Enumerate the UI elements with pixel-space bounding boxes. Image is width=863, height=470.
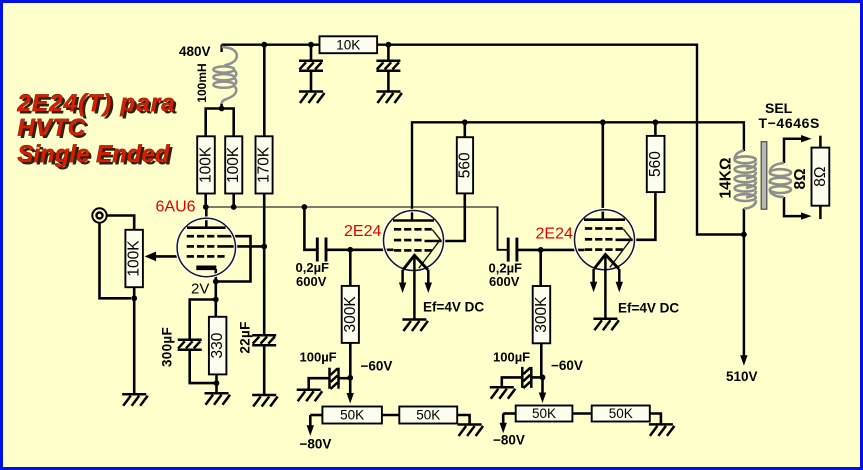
wire: 6AU6 g3 tie to cathode bbox=[216, 236, 251, 281]
title line 3 bbox=[18, 141, 174, 171]
svg-text:−80V: −80V bbox=[300, 437, 332, 452]
svg-text:T−4646S: T−4646S bbox=[759, 115, 820, 131]
transformer T1 primary winding 14K bbox=[735, 151, 756, 209]
transformer T1 core bbox=[761, 142, 767, 210]
wire: 170K bottom to 22uF and ground bbox=[263, 194, 266, 396]
resistor R12 50K bbox=[322, 407, 382, 424]
wire: 6AU6 g2 to 170K line bbox=[217, 245, 264, 248]
svg-text:300K: 300K bbox=[533, 296, 550, 333]
resistor R9 560 screen 2 bbox=[647, 136, 665, 192]
wire: input jack to grid resistor bbox=[107, 216, 135, 230]
svg-text:100µF: 100µF bbox=[300, 350, 337, 365]
wire: between 50K#3 and 50K#4 bbox=[572, 412, 591, 415]
transformer T1 secondary winding 8ohm bbox=[770, 163, 791, 197]
wire: 6AU6 cathode down bbox=[215, 269, 218, 317]
input jack J1 bbox=[92, 208, 106, 222]
ground: cathode network bbox=[205, 393, 231, 405]
resistor R14 50K bbox=[516, 406, 573, 422]
wire+arrow: bias2 tap arrow bbox=[541, 377, 544, 393]
capacitor C7 coupling 0.2uF first bbox=[317, 238, 326, 262]
svg-text:170K: 170K bbox=[256, 146, 273, 183]
capacitor C1 filter bbox=[299, 61, 323, 71]
svg-text:300K: 300K bbox=[342, 296, 359, 333]
svg-text:50K: 50K bbox=[532, 406, 556, 421]
wire: filter cap C1 branch bbox=[310, 45, 313, 92]
svg-text:100K: 100K bbox=[198, 146, 215, 183]
wire: R4 bottom to ground bbox=[133, 287, 136, 394]
ground: bias2 100uF bbox=[490, 387, 516, 399]
tube V3 2E24 second bbox=[575, 210, 635, 319]
svg-text:100K: 100K bbox=[126, 240, 143, 277]
wire: bias1 100uF leads bbox=[309, 378, 330, 389]
svg-text:Ef=4V DC: Ef=4V DC bbox=[423, 300, 484, 315]
wire: V2 plate rail riser and plate rail bbox=[412, 122, 744, 220]
wire: R1 bottom to plate node bbox=[204, 194, 207, 208]
wire: thin signal rail from 6AU6 plate to coupling caps bbox=[206, 206, 498, 208]
svg-text:22µF: 22µF bbox=[238, 321, 253, 353]
svg-text:2E24(T) para: 2E24(T) para bbox=[17, 90, 176, 117]
svg-text:2E24: 2E24 bbox=[344, 223, 381, 240]
ground: V2 filament bbox=[402, 320, 428, 332]
svg-text:Single Ended: Single Ended bbox=[18, 141, 171, 168]
wire+arrow: bias1 tap arrow bbox=[349, 378, 352, 394]
wire: secondary top lead with arrow bbox=[784, 139, 802, 163]
capacitor C2 filter bbox=[376, 61, 400, 71]
svg-text:14KΩ: 14KΩ bbox=[718, 158, 735, 199]
resistor R2 100K bbox=[225, 136, 242, 193]
resistor R8 560 screen 1 bbox=[456, 137, 473, 193]
resistor R4 100K grid bbox=[125, 230, 142, 287]
svg-text:50K: 50K bbox=[609, 406, 633, 421]
svg-text:50K: 50K bbox=[416, 408, 440, 423]
wire+arrow: 6AU6 grid arrow bbox=[155, 255, 180, 258]
svg-text:6AU6: 6AU6 bbox=[156, 199, 196, 216]
wire: 8ohm load leads bbox=[819, 136, 822, 219]
svg-text:480V: 480V bbox=[179, 44, 211, 59]
tube V2 2E24 first bbox=[384, 211, 444, 320]
ground: bias2 50K end bbox=[649, 424, 675, 436]
svg-text:600V: 600V bbox=[489, 274, 520, 289]
ground: filter cap C2 bbox=[376, 92, 402, 104]
svg-text:100K: 100K bbox=[225, 146, 242, 183]
wire: 6AU6 plate lead bbox=[205, 207, 208, 228]
svg-text:8Ω: 8Ω bbox=[792, 168, 809, 189]
tube V1 6AU6 bbox=[177, 218, 235, 276]
svg-text:100mH: 100mH bbox=[195, 63, 209, 102]
wire: filter cap C2 branch bbox=[387, 45, 390, 92]
ground: bias1 50K end bbox=[458, 425, 484, 437]
svg-text:10K: 10K bbox=[336, 37, 360, 52]
wire: choke top lead bbox=[220, 45, 222, 52]
wire: secondary bottom lead with arrow bbox=[784, 197, 802, 216]
ground: 22uF bbox=[252, 395, 278, 407]
resistor R13 50K bbox=[399, 407, 457, 424]
ground: input/grid resistor bbox=[122, 394, 148, 406]
wire+arrow: -80V arrow 1 bbox=[309, 415, 312, 427]
resistor R1 100K bbox=[197, 136, 215, 193]
inductor L1 100mH choke bbox=[213, 47, 236, 104]
capacitor C4 22uF screen bbox=[252, 335, 276, 345]
ground: filter cap C1 bbox=[299, 92, 325, 104]
svg-text:600V: 600V bbox=[296, 274, 327, 289]
wire: 300uF branch bbox=[190, 300, 216, 340]
title line 1 bbox=[17, 90, 179, 120]
wire: R2 bottom to node bbox=[232, 194, 235, 208]
svg-text:−60V: −60V bbox=[551, 358, 583, 373]
wire: R6 300K leads bbox=[349, 250, 352, 378]
resistor R7 300K bias feed 2 bbox=[533, 286, 551, 343]
svg-text:8Ω: 8Ω bbox=[812, 167, 829, 187]
wire: between 50K#1 and 50K#2 bbox=[382, 414, 399, 417]
svg-text:560: 560 bbox=[456, 152, 473, 178]
svg-text:2V: 2V bbox=[191, 281, 209, 298]
wire: coupling cap C7 feed bbox=[304, 207, 317, 250]
svg-text:100µF: 100µF bbox=[493, 350, 530, 365]
resistor R3 170K bbox=[256, 136, 273, 193]
wire: 330 bottom to ground bbox=[215, 374, 218, 393]
wire: 50K#3 left lead bbox=[503, 412, 516, 415]
wire: C7 to V2 grid bbox=[326, 249, 394, 252]
wire: 560#2 leads bbox=[616, 122, 656, 240]
ground: V3 filament bbox=[593, 319, 619, 331]
resistor R10 8 ohm load bbox=[812, 148, 830, 206]
svg-text:−80V: −80V bbox=[493, 433, 525, 448]
wire: 560#1 leads bbox=[425, 122, 465, 241]
svg-text:SEL: SEL bbox=[765, 100, 793, 116]
svg-text:Ef=4V DC: Ef=4V DC bbox=[618, 301, 679, 316]
svg-text:330: 330 bbox=[209, 332, 226, 358]
capacitor C6 100uF bias2 bbox=[522, 367, 531, 388]
capacitor C5 100uF bias1 bbox=[330, 368, 339, 389]
wire: bias2 100uF leads bbox=[502, 377, 523, 387]
svg-text:0,2µF: 0,2µF bbox=[296, 260, 330, 275]
wire: 50K#4 to ground bbox=[650, 414, 661, 425]
wire: primary bottom lead and 510V arrow bbox=[743, 209, 746, 356]
wire: C8 to V3 grid bbox=[517, 249, 585, 252]
svg-text:HVTC: HVTC bbox=[18, 115, 87, 142]
resistor R15 50K bbox=[592, 406, 650, 422]
wire: choke bottom node to R2/R3 tops bbox=[206, 109, 234, 137]
wire: 50K#1 left lead bbox=[310, 414, 322, 417]
svg-text:2E24: 2E24 bbox=[536, 226, 573, 243]
svg-text:300µF: 300µF bbox=[160, 327, 175, 367]
capacitor C3 300uF cathode bbox=[178, 340, 202, 350]
resistor R6 300K bias feed 1 bbox=[342, 286, 359, 343]
wire+arrow: -80V arrow 2 bbox=[502, 414, 505, 425]
wire: V3 plate lead bbox=[601, 122, 604, 220]
wire: B+ top rail 480V bbox=[222, 45, 744, 235]
wire: R7 300K leads bbox=[539, 250, 542, 378]
wire: 50K#2 to ground bbox=[457, 415, 469, 425]
wire: 170K top lead bbox=[263, 45, 266, 137]
resistor R11 10K bbox=[320, 36, 378, 53]
resistor R5 330 cathode bbox=[209, 317, 227, 375]
title line 2 bbox=[18, 115, 89, 145]
svg-text:−60V: −60V bbox=[361, 359, 393, 374]
svg-text:50K: 50K bbox=[340, 408, 364, 423]
ground: bias1 100uF bbox=[297, 390, 323, 402]
svg-text:560: 560 bbox=[647, 151, 664, 177]
svg-text:510V: 510V bbox=[726, 369, 758, 384]
capacitor C8 coupling 0.2uF second bbox=[508, 238, 517, 262]
wire: jack shield down bbox=[100, 223, 132, 298]
